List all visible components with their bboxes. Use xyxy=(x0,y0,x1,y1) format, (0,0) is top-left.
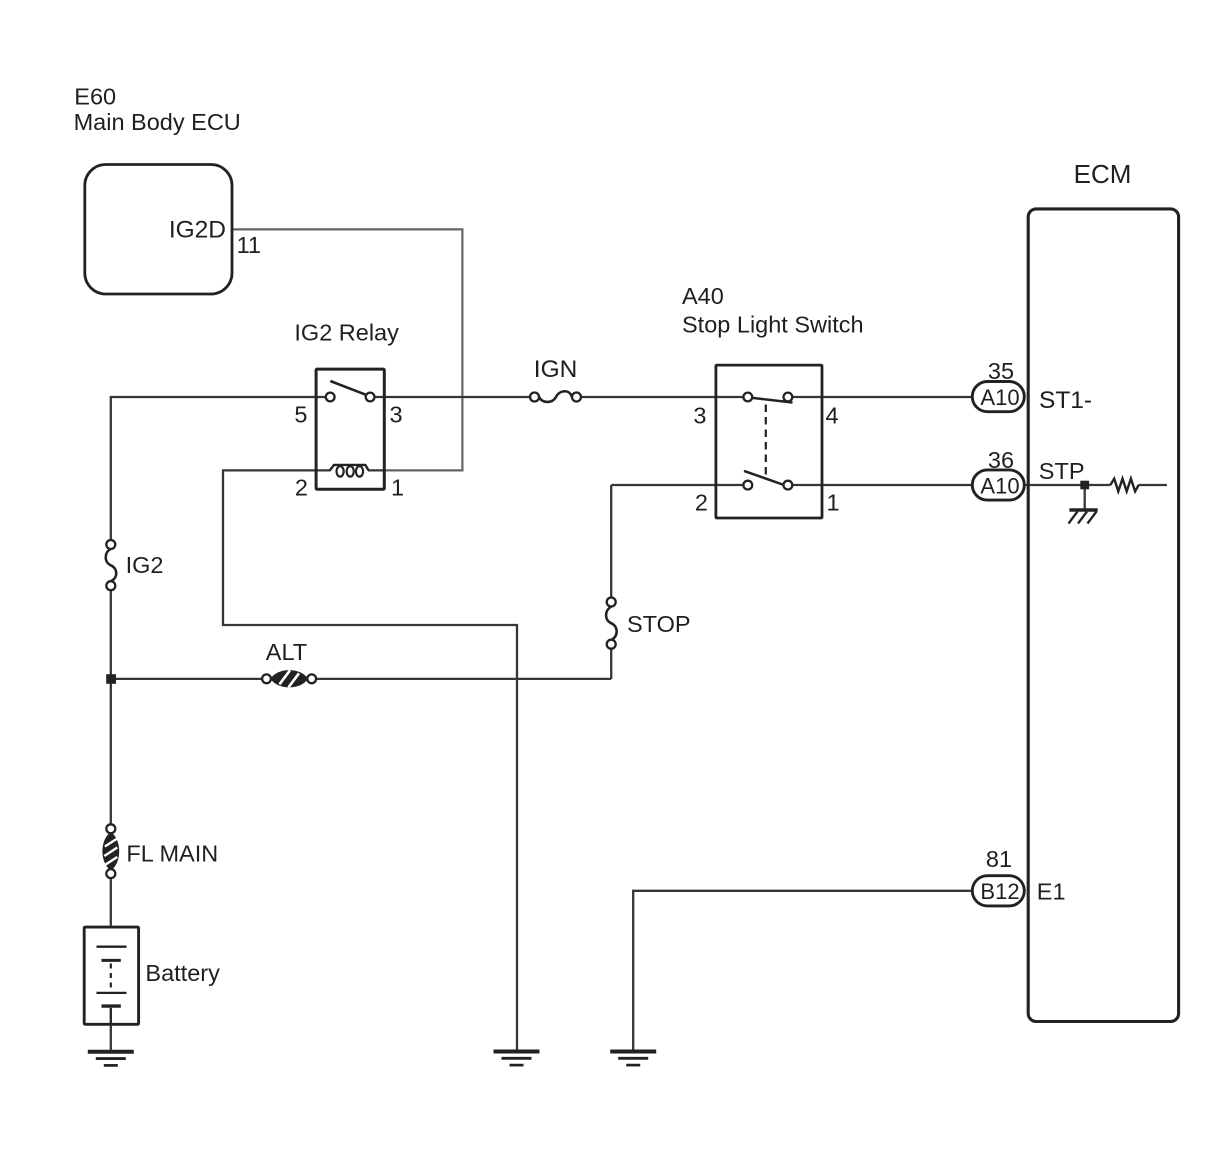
svg-text:E60: E60 xyxy=(74,84,116,110)
svg-text:A10: A10 xyxy=(980,385,1019,410)
svg-text:1: 1 xyxy=(391,474,404,500)
svg-text:3: 3 xyxy=(693,402,706,428)
svg-text:1: 1 xyxy=(827,489,840,515)
svg-text:B12: B12 xyxy=(980,879,1019,904)
svg-text:Battery: Battery xyxy=(145,960,220,986)
svg-text:36: 36 xyxy=(988,447,1014,473)
svg-text:2: 2 xyxy=(295,474,308,500)
svg-text:Main Body ECU: Main Body ECU xyxy=(74,109,241,135)
svg-text:IG2 Relay: IG2 Relay xyxy=(294,320,399,346)
svg-text:4: 4 xyxy=(826,402,839,428)
svg-text:35: 35 xyxy=(988,358,1014,384)
svg-text:A40: A40 xyxy=(682,283,724,309)
svg-text:A10: A10 xyxy=(980,474,1019,499)
svg-text:11: 11 xyxy=(237,232,261,258)
svg-text:ALT: ALT xyxy=(266,639,307,665)
svg-text:2: 2 xyxy=(695,489,708,515)
svg-text:81: 81 xyxy=(986,846,1012,872)
svg-text:E1: E1 xyxy=(1037,879,1066,905)
svg-text:3: 3 xyxy=(390,401,403,427)
svg-text:IG2: IG2 xyxy=(126,552,164,578)
svg-text:IGN: IGN xyxy=(534,356,578,383)
svg-text:STOP: STOP xyxy=(627,611,691,637)
svg-text:Stop Light Switch: Stop Light Switch xyxy=(682,311,864,337)
svg-text:5: 5 xyxy=(294,401,307,427)
svg-text:FL MAIN: FL MAIN xyxy=(126,841,218,867)
svg-text:IG2D: IG2D xyxy=(169,216,226,243)
svg-text:STP: STP xyxy=(1039,458,1085,484)
svg-text:ECM: ECM xyxy=(1074,159,1132,189)
svg-text:ST1-: ST1- xyxy=(1039,387,1092,414)
